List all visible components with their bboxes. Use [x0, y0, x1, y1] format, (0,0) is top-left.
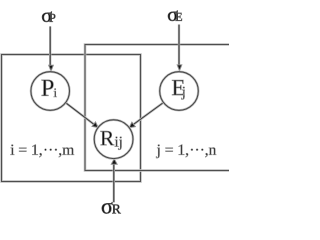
plate (right, j = 1..n)	[85, 45, 237, 171]
label sigma_P	[42, 12, 55, 22]
wire: arrow sigma_R -> Rij	[111, 159, 117, 203]
wire: arrow sigma_P -> Pi	[49, 26, 54, 71]
node Rij	[94, 120, 133, 159]
node Pi	[31, 72, 70, 111]
label sigma_R	[102, 202, 121, 213]
wire: arrow Pi -> Rij	[66, 103, 99, 128]
node Ej	[160, 72, 199, 111]
plate index label i = 1,...,m	[11, 145, 74, 158]
label sigma_E	[168, 11, 182, 21]
wire: arrow sigma_E -> Ej	[177, 25, 182, 71]
plate index label j = 1,...,n	[156, 145, 216, 159]
wire: arrow Ej -> Rij	[129, 103, 163, 128]
plate (left, i = 1..m)	[2, 55, 141, 182]
